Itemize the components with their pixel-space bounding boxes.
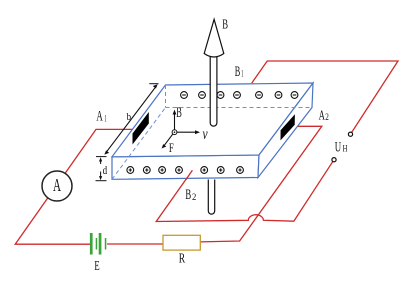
svg-text:A: A [53,175,61,195]
dimension b: double-headed arrow along top-left edge [106,86,157,153]
dimension d: upper arrow [100,160,102,165]
svg-text:b: b [127,111,132,123]
vector arrow B (up) [174,113,176,130]
dimension tick shared by b and d at front-top-left corner [96,156,107,158]
svg-text:2: 2 [192,192,196,202]
wire: B2 lead segment crossing the front face [186,170,193,179]
electrode A2 (black pad on right face) [281,114,295,140]
wire: electrode A1 to ammeter A to bottom-left corner [15,129,136,244]
slab front face [112,155,259,179]
dimension b: extension tick at upper end [149,83,158,85]
magnetic field B arrow: lower shaft below slab [208,180,214,215]
svg-text:H: H [343,144,348,154]
svg-text:2: 2 [325,112,329,122]
slab top face [112,83,313,157]
ammeter A (circle) [42,171,72,201]
terminal: lower UH [332,158,336,162]
dimension d: extension tick at bottom [96,180,107,182]
battery E (green cells: long-short-long-short) [90,233,93,255]
magnetic field B arrow: upper shaft (outlined, rounded lower end) [210,56,217,127]
svg-text:v: v [203,126,209,143]
semiconductor slab body (white fill) [112,83,313,179]
svg-text:B: B [176,105,182,121]
electrode A1 (black pad on left face) [133,112,149,145]
slab hidden edge: rear-bottom horizontal (dashed) [166,107,312,109]
svg-text:E: E [94,259,99,274]
svg-text:A: A [96,109,102,125]
charge carrier symbol (circle with dot) [172,130,177,135]
svg-text:F: F [169,140,174,155]
svg-text:U: U [335,139,341,155]
wire: plate B2 to lower UH terminal, with hop over crossing wire [156,160,334,222]
wire: battery E to resistor R [107,243,163,245]
wire: resistor R up to electrode A2 [200,126,322,242]
svg-text:1: 1 [104,113,106,123]
positive charges (circled plus) on front face [127,167,244,174]
vector arrow v (right) [177,131,199,133]
svg-text:B: B [222,17,228,32]
svg-text:B: B [185,187,191,203]
magnetic field B arrow: head [204,19,224,57]
resistor R (box) [163,235,200,250]
svg-text:1: 1 [241,69,243,79]
vector arrow F (down-left) [164,134,173,145]
negative charges (circled minus) on top face [181,92,298,99]
svg-text:B: B [235,64,241,80]
terminal: upper UH [348,132,352,136]
wire: plate B1 to upper UH terminal [252,61,398,134]
svg-text:d: d [103,165,108,177]
dimension d: lower arrow [100,172,102,179]
slab hidden edge: bottom-left oblique (dashed) [112,108,166,180]
svg-text:R: R [179,252,186,267]
slab hidden edge: rear-left vertical (dashed) [165,85,167,108]
slab right face [258,83,313,178]
